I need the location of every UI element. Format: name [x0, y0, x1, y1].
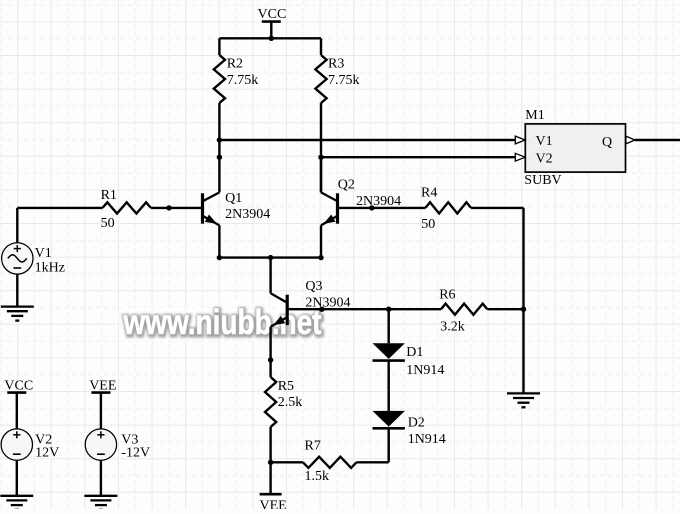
svg-text:7.75k: 7.75k: [328, 73, 360, 88]
svg-text:50: 50: [101, 216, 115, 231]
svg-text:VCC: VCC: [258, 7, 287, 22]
svg-text:3.2k: 3.2k: [440, 319, 465, 334]
svg-text:Q2: Q2: [338, 177, 355, 192]
svg-text:V2: V2: [536, 152, 553, 167]
svg-text:1N914: 1N914: [406, 363, 444, 378]
svg-text:M1: M1: [525, 108, 544, 123]
svg-text:2.5k: 2.5k: [278, 395, 303, 410]
svg-text:R6: R6: [439, 288, 455, 303]
svg-text:Q3: Q3: [305, 279, 322, 294]
svg-text:12V: 12V: [35, 446, 59, 461]
svg-text:D2: D2: [408, 416, 425, 431]
svg-text:1N914: 1N914: [408, 432, 446, 447]
svg-text:1.5k: 1.5k: [305, 469, 330, 484]
svg-text:R4: R4: [421, 185, 437, 200]
svg-text:2N3904: 2N3904: [305, 296, 350, 311]
svg-text:Q: Q: [602, 135, 612, 150]
svg-text:R3: R3: [328, 56, 344, 71]
svg-text:Q1: Q1: [225, 191, 242, 206]
svg-text:7.75k: 7.75k: [227, 73, 259, 88]
svg-text:2N3904: 2N3904: [225, 207, 270, 222]
svg-text:D1: D1: [406, 345, 423, 360]
svg-text:R1: R1: [101, 188, 117, 203]
svg-text:R5: R5: [278, 379, 294, 394]
svg-text:R7: R7: [305, 439, 321, 454]
svg-text:R2: R2: [227, 56, 243, 71]
svg-text:-12V: -12V: [121, 446, 150, 461]
svg-text:VCC: VCC: [4, 378, 33, 393]
svg-text:V1: V1: [536, 134, 553, 149]
svg-text:V1: V1: [35, 246, 52, 261]
svg-text:50: 50: [421, 217, 435, 232]
svg-text:1kHz: 1kHz: [35, 260, 65, 275]
svg-text:SUBV: SUBV: [524, 173, 561, 188]
svg-text:VEE: VEE: [89, 378, 116, 393]
svg-text:VEE: VEE: [260, 498, 287, 509]
